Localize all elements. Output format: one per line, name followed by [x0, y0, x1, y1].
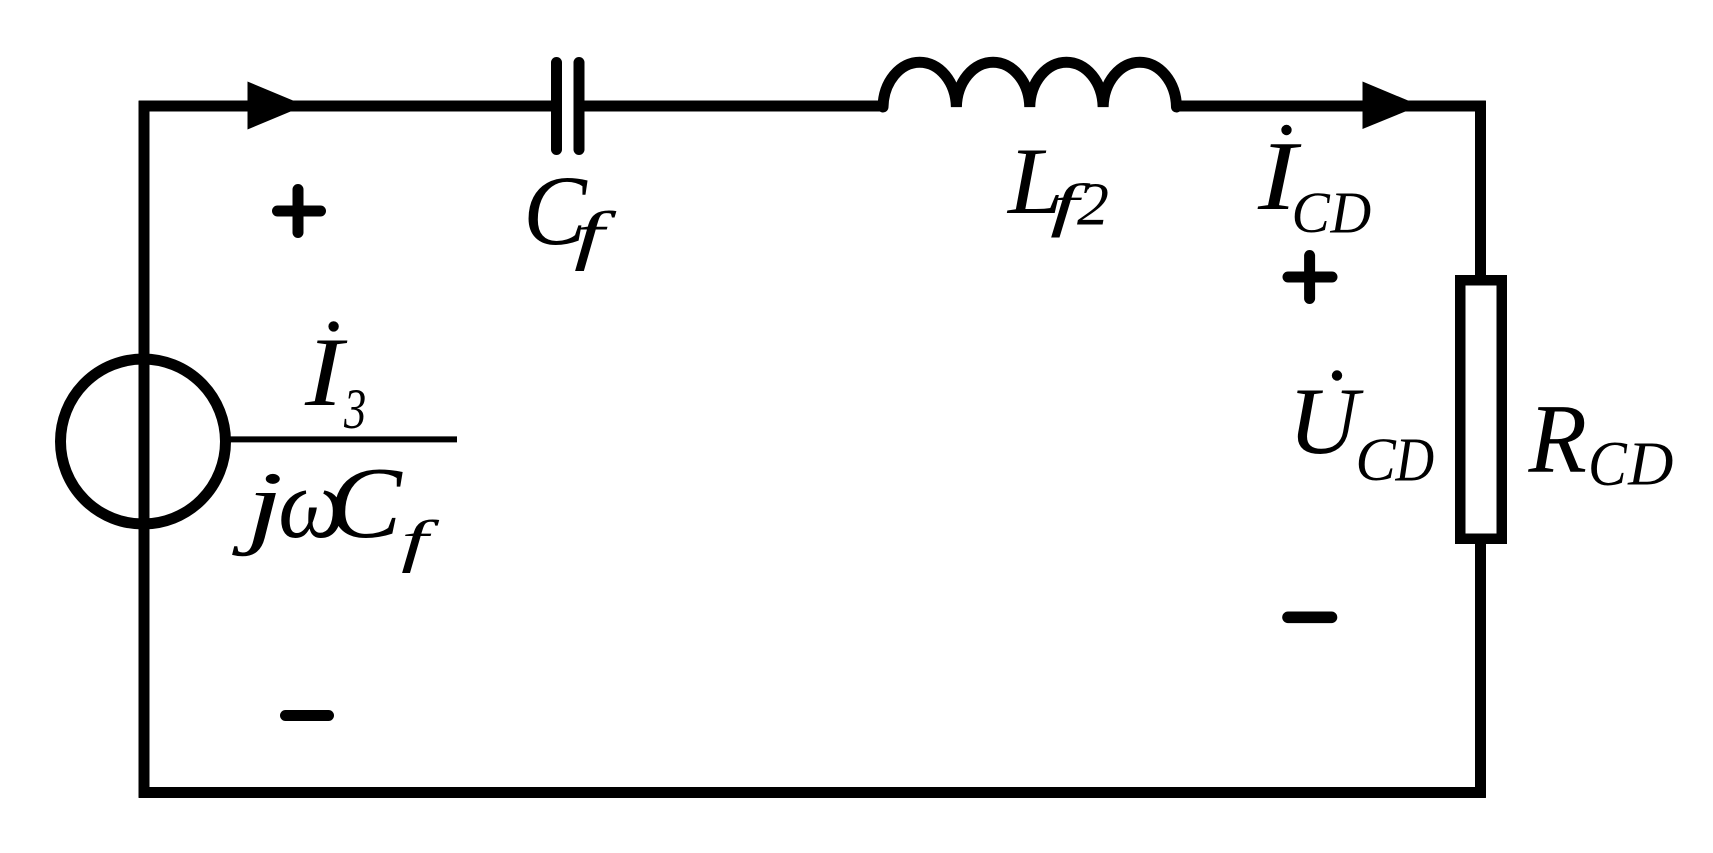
resistor R_CD body: [1460, 280, 1502, 539]
label: I_CD dot: [1281, 125, 1291, 135]
plus sign (right, U_CD polarity): [1288, 256, 1332, 299]
wire: right vertical lower segment: [1475, 539, 1486, 798]
svg-text:R: R: [1528, 384, 1587, 494]
svg-text:C: C: [328, 447, 403, 559]
wire: top-right horizontal segment: [1176, 101, 1486, 112]
svg-text:2: 2: [1077, 171, 1109, 238]
svg-text:D: D: [1627, 429, 1673, 499]
svg-text:C: C: [1588, 430, 1628, 500]
svg-text:D: D: [1330, 179, 1372, 246]
capacitor Cf plate left: [551, 63, 562, 150]
svg-text:D: D: [1395, 425, 1435, 495]
fraction bar of I3/jwCf: [230, 436, 457, 442]
svg-text:C: C: [1355, 427, 1397, 494]
svg-text:I: I: [304, 318, 348, 427]
wire: top-left horizontal segment: [139, 101, 552, 112]
label: U_CD dot: [1332, 370, 1342, 380]
svg-text:3: 3: [343, 378, 366, 442]
svg-text:f: f: [574, 199, 617, 272]
arrow: current direction I_CD on top-right wire: [1363, 82, 1421, 130]
current source circle: [61, 359, 226, 524]
wire: right vertical upper segment: [1475, 101, 1486, 280]
minus sign (right, U_CD polarity): [1288, 611, 1332, 623]
minus sign (left, source polarity): [286, 710, 329, 721]
capacitor Cf plate right: [574, 63, 585, 150]
wire: left vertical branch: [139, 101, 150, 798]
label: numerator I3 dot: [328, 321, 338, 331]
arrow: current direction on top-left wire: [248, 82, 306, 130]
svg-text:U: U: [1288, 368, 1364, 474]
wire: top-middle horizontal segment: [584, 101, 884, 112]
wire: bottom horizontal segment: [139, 787, 1486, 798]
plus sign (left, source polarity): [278, 190, 321, 233]
svg-text:f: f: [401, 510, 440, 574]
inductor Lf2 coil (4 humps): [883, 62, 1177, 107]
svg-text:j: j: [231, 453, 283, 557]
svg-text:C: C: [1292, 180, 1332, 246]
